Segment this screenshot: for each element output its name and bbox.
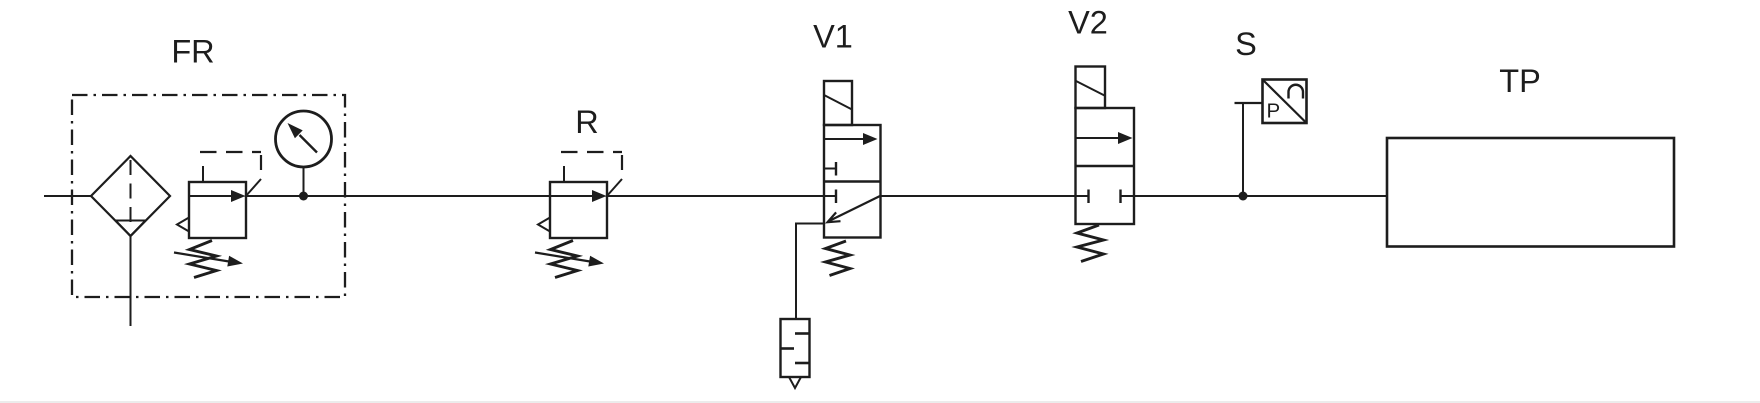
drain line below filter — [130, 236, 132, 326]
svg-text:V2: V2 — [1068, 5, 1108, 41]
gauge stem wire — [303, 167, 305, 196]
svg-text:S: S — [1235, 26, 1257, 62]
pressure gauge (FR) — [276, 111, 332, 167]
bottom page edge tint — [0, 401, 1760, 403]
load TP box — [1387, 138, 1674, 247]
valve V2 body — [1076, 108, 1135, 224]
regulator (FR) — [174, 152, 261, 278]
pressure sensor S — [1263, 80, 1307, 124]
svg-text:FR: FR — [171, 34, 214, 70]
valve V2 return spring — [1077, 225, 1104, 262]
junction node at gauge — [299, 192, 308, 201]
valve V1 return spring — [826, 241, 851, 276]
wire: supply inlet to filter — [44, 195, 91, 197]
regulator R — [535, 152, 622, 278]
valve V2 solenoid — [1076, 67, 1106, 109]
wire: V1 to valve V2 — [881, 195, 1076, 197]
svg-text:R: R — [575, 104, 598, 140]
svg-text:P: P — [1267, 100, 1281, 123]
valve V1 body — [824, 125, 881, 238]
wire: V2 to TP — [1134, 195, 1387, 197]
svg-text:V1: V1 — [813, 19, 853, 55]
wire: FR to regulator R — [246, 195, 550, 197]
wire: sensor S branch — [1235, 103, 1263, 196]
junction node at sensor S — [1239, 192, 1248, 201]
wire: R to valve V1 — [608, 195, 824, 197]
svg-text:TP: TP — [1499, 63, 1541, 99]
silencer on V1 exhaust — [781, 319, 810, 388]
filter (FR) — [91, 156, 170, 236]
wire: V1 exhaust elbow — [796, 224, 824, 320]
FR service-unit enclosure (dash-dot frame) — [72, 95, 345, 297]
valve V1 solenoid — [824, 81, 852, 125]
